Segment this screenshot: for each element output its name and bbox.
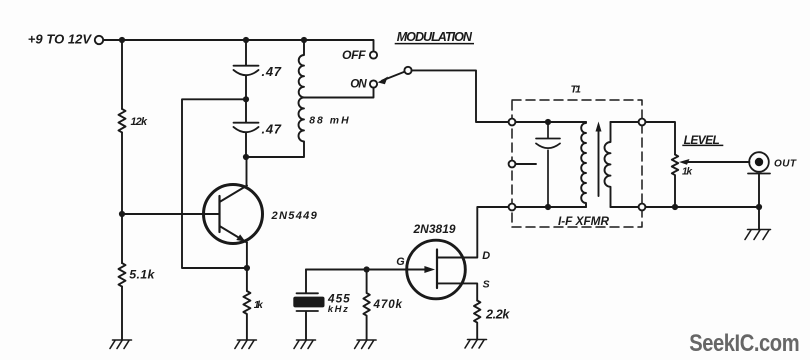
node cap top junction T1 (545, 119, 551, 125)
svg-text:2N3819: 2N3819 (413, 222, 456, 236)
capacitor C .47 upper (234, 66, 259, 76)
svg-text:D: D (482, 250, 490, 262)
node base junction (119, 211, 125, 217)
wire caps branch (245, 40, 247, 157)
wire coil tap to ON (304, 88, 374, 98)
wire drain (437, 207, 509, 258)
wire bottom rail right (645, 206, 759, 208)
svg-text:12k: 12k (131, 116, 148, 128)
capacitor C T1 (536, 122, 560, 207)
svg-text:G: G (396, 256, 405, 268)
crystal Y1 plates (297, 293, 319, 311)
supply terminal (95, 36, 103, 44)
node OUT shield junction (756, 204, 762, 210)
wire primary top (515, 121, 586, 123)
ground under crystal (294, 340, 316, 349)
inductor L 88mH (299, 40, 305, 141)
switch pole (404, 67, 411, 74)
capacitor C .47 lower (234, 123, 259, 133)
svg-text:OFF: OFF (342, 48, 366, 62)
wire pole to transformer (412, 70, 509, 122)
transistor Q1 emitter arrowhead (236, 234, 245, 241)
wire OUT shield to rail (758, 175, 760, 230)
wire secondary bottom (611, 206, 639, 208)
svg-text:SeekIC.com: SeekIC.com (689, 330, 799, 357)
node pot bottom (672, 204, 678, 210)
node cap mid junction (243, 96, 249, 102)
svg-text:5.1k: 5.1k (129, 268, 155, 282)
switch ON contact (370, 80, 377, 87)
node cap bottom junction (243, 154, 249, 160)
svg-text:ON: ON (350, 78, 367, 91)
crystal Y1 455kHz leads (305, 270, 307, 341)
transistor Q1 collector stroke (220, 186, 248, 203)
wire source (437, 283, 477, 300)
svg-text:.47: .47 (262, 122, 282, 137)
transistor Q1 base bar (218, 196, 220, 232)
node junction caps top (243, 37, 249, 43)
wire primary bottom (515, 206, 586, 208)
node junction V+ left (119, 37, 125, 43)
svg-text:I-F XFMR: I-F XFMR (558, 214, 609, 228)
transistor Q2 2N3819 circle (407, 240, 466, 299)
transistor Q2 gate arrowhead (424, 266, 435, 273)
wire top rail (103, 40, 373, 51)
terminal T1 right top (639, 119, 646, 126)
svg-text:2N5449: 2N5449 (271, 210, 318, 222)
switch OFF contact (370, 51, 377, 58)
wire feedback to emitter (182, 99, 247, 268)
svg-text:1k: 1k (682, 167, 692, 178)
ground under 1k (235, 340, 257, 349)
transistor Q1 2N5449 circle (204, 185, 263, 244)
terminal T1 left top (509, 119, 516, 126)
svg-text:88 mH: 88 mH (309, 116, 349, 127)
svg-text:kHz: kHz (328, 304, 348, 315)
wire secondary top (611, 121, 639, 123)
switch arm with arrowhead (382, 72, 404, 81)
ground under 2.2k (465, 340, 487, 349)
node emitter junction (244, 265, 250, 271)
svg-text:1k: 1k (254, 300, 264, 311)
terminal T1 left mid with stub (515, 163, 536, 165)
wire gate rail (306, 269, 430, 271)
ground under 5.1k (110, 340, 132, 349)
wire secondary to pot (645, 122, 675, 155)
wire cap bottom to coil (246, 142, 304, 157)
svg-text:2.2k: 2.2k (485, 308, 510, 322)
svg-text:.47: .47 (262, 64, 282, 79)
crystal Y1 body (293, 297, 324, 308)
svg-text:S: S (483, 279, 490, 291)
svg-text:+9 TO 12V: +9 TO 12V (28, 31, 93, 46)
resistor R 5.1k (119, 263, 126, 286)
connector J1 OUT (749, 152, 769, 172)
node junction coil top (301, 37, 307, 43)
svg-text:MODULATION: MODULATION (397, 30, 473, 44)
inductor T1 secondary (605, 122, 611, 207)
wire base (122, 213, 220, 215)
potentiometer wiper arrow (686, 161, 749, 163)
terminal T1 right bottom (639, 204, 646, 211)
transformer T1 dashed box (512, 100, 642, 227)
wire emitter (246, 243, 248, 269)
transistor Q1 emitter stroke (220, 226, 247, 243)
inductor T1 primary (581, 122, 586, 207)
node gate junction (364, 266, 370, 272)
node cap bottom junction T1 (545, 204, 551, 210)
resistor R 2.2k (474, 301, 480, 340)
wire collector (246, 157, 248, 186)
resistor R 12k (119, 109, 126, 133)
wire left rail (121, 40, 123, 340)
transistor Q2 channel bar (436, 250, 438, 289)
resistor R 470k (363, 270, 369, 341)
svg-text:OUT: OUT (774, 159, 797, 170)
svg-text:470k: 470k (373, 298, 403, 311)
resistor R 1k emitter (243, 268, 250, 340)
potentiometer R 1k (672, 155, 678, 208)
ground under 470k (355, 340, 377, 349)
svg-text:T1: T1 (571, 83, 582, 95)
ground under OUT (745, 230, 771, 240)
terminal T1 left bottom (509, 204, 516, 211)
core arrow (598, 129, 600, 196)
